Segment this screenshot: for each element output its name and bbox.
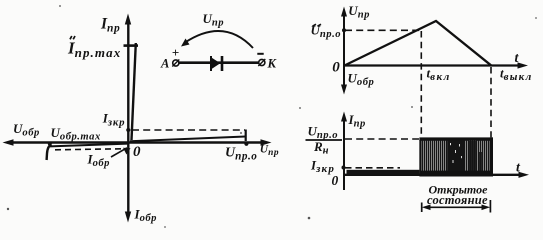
svg-text:0: 0 [133,144,141,160]
svg-text:+: + [172,45,179,60]
svg-text:А: А [160,57,169,71]
svg-text:0: 0 [332,173,339,188]
svg-text:0: 0 [332,59,340,75]
svg-text:К: К [267,57,278,71]
svg-text:состояние: состояние [427,193,488,207]
